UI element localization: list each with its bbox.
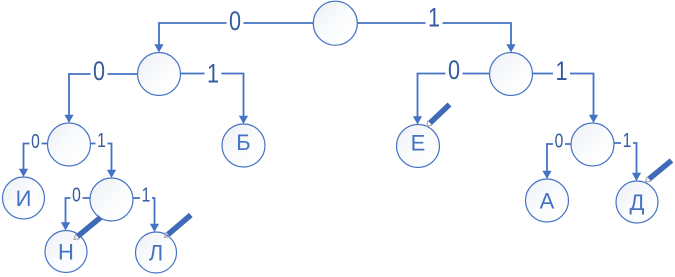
svg-text:0: 0	[229, 7, 241, 37]
wire edge R-E	[413, 74, 490, 125]
wire edge RR-D	[614, 143, 641, 181]
node internal node level2 left	[138, 53, 181, 96]
svg-text:0: 0	[31, 130, 40, 152]
node internal node level3 right	[571, 123, 614, 166]
svg-text:1: 1	[207, 60, 219, 90]
label 1 on edge L-B	[205, 60, 222, 90]
pencil mark on node E	[427, 105, 450, 127]
wire edge LLR-N	[61, 198, 90, 231]
label 1 on edge RR-D	[621, 129, 633, 151]
pencil mark on node N	[74, 218, 101, 240]
svg-text:Д: Д	[630, 190, 645, 215]
wire edge RR-A	[542, 144, 571, 179]
wire edge R-RR	[533, 74, 599, 124]
node internal node level3 left	[48, 123, 91, 166]
svg-text:0: 0	[448, 56, 460, 86]
label 0 on edge L-LL	[91, 57, 108, 87]
svg-text:1: 1	[97, 129, 106, 151]
wire edge LL-LLR	[91, 144, 117, 179]
label 1 on edge root-R	[426, 3, 443, 33]
label 1 on edge LLR-La	[140, 184, 152, 206]
svg-text:1: 1	[428, 3, 440, 33]
label 0 on edge root-L	[227, 7, 244, 37]
pencil mark on node D	[646, 161, 672, 182]
wire edge root-R	[357, 23, 515, 53]
wire edge root-L	[154, 23, 313, 53]
svg-text:0: 0	[72, 184, 81, 206]
node leaf И	[3, 177, 45, 219]
svg-text:0: 0	[93, 57, 105, 87]
wire edge L-B	[181, 74, 249, 125]
label 0 on edge LL-I	[30, 130, 42, 152]
wire edge LL-I	[19, 144, 48, 178]
svg-text:Б: Б	[236, 130, 250, 155]
node leaf Н	[45, 231, 87, 273]
node internal node level2 right	[490, 53, 533, 96]
node root node	[313, 1, 357, 45]
node leaf Б	[222, 124, 265, 167]
svg-text:1: 1	[555, 57, 567, 87]
node leaf Е	[397, 125, 440, 168]
svg-text:1: 1	[623, 129, 632, 151]
node leaf Л	[136, 232, 177, 273]
label 1 on edge LL-LLR	[96, 129, 108, 151]
node internal node level4	[90, 178, 133, 221]
svg-text:Е: Е	[411, 131, 426, 156]
label 0 on edge RR-A	[553, 130, 565, 152]
svg-text:Л: Л	[149, 240, 163, 265]
svg-text:А: А	[540, 188, 555, 213]
wire edge L-LL	[64, 74, 137, 123]
svg-text:Н: Н	[58, 239, 74, 264]
label 0 on edge R-E	[446, 56, 463, 86]
label 1 on edge R-RR	[553, 57, 570, 87]
label 0 on edge LLR-N	[71, 184, 83, 206]
svg-text:И: И	[16, 186, 32, 211]
node leaf Д	[616, 181, 658, 223]
pencil mark on node La	[165, 215, 191, 237]
svg-text:0: 0	[555, 130, 564, 152]
svg-text:1: 1	[142, 184, 151, 206]
wire edge LLR-La	[133, 198, 159, 232]
node leaf А	[526, 179, 569, 222]
